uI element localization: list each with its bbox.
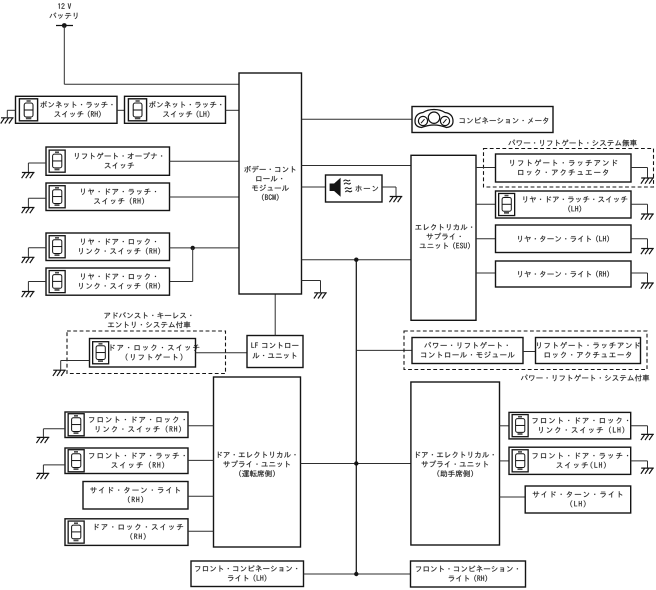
- dashed enclosure: power liftgate system: [404, 331, 647, 370]
- switch icon (フロント・ドア・ラッチ・スイッチ (LH)): [512, 450, 528, 472]
- wire: liftgate opener switch to ground: [28, 163, 46, 172]
- ground (front door lock link switch LH): [641, 434, 654, 440]
- wire: liftgate door lock switch to LF control unit: [196, 352, 248, 354]
- wire: PLG control module to liftgate latch and lock actuator: [523, 351, 536, 353]
- switch icon (リフトゲート・オープナ・スイッチ): [49, 150, 65, 172]
- switch icon (リヤ・ドア・ロック・リンク・スイッチ (RH) upper): [49, 236, 65, 258]
- switch icon (フロント・ドア・ラッチ・スイッチ (RH)): [68, 450, 84, 472]
- wire: door lock switch RH to door ESU driver: [188, 530, 214, 532]
- switch icon (リヤ・ドア・ラッチ・スイッチ (RH)): [49, 186, 65, 208]
- wire: BCM to ESU (lower): [302, 259, 412, 261]
- box: フロント・ドア・ラッチ・スイッチ (RH): [65, 448, 188, 474]
- ground (rear door lock link switch upper): [22, 257, 35, 263]
- switch icon (フロント・ドア・ロック・リンク・スイッチ (RH)): [68, 414, 84, 436]
- ground (front door latch switch RH): [36, 473, 49, 479]
- wire: BCM to ESU (upper): [302, 165, 412, 167]
- box: ボンネット・ラッチ・スイッチ (LH): [125, 96, 226, 123]
- wire: rear door latch switch LH to ground: [631, 204, 648, 213]
- wire: side turn light RH to door ESU driver: [188, 495, 214, 497]
- switch icon (ボンネット・ラッチ・スイッチ (LH)): [128, 99, 146, 121]
- wire: rear door lock link lower to ground: [28, 282, 46, 292]
- ground (rear door lock link switch lower): [22, 292, 35, 298]
- wire: liftgate latch and lock actuator to ground: [631, 168, 648, 178]
- box: LF コントロール・ユニット: [247, 336, 303, 368]
- wire: BCM to horn: [302, 186, 326, 188]
- wire: rear door lock link upper to BCM: [170, 247, 240, 249]
- dashed enclosure: advanced keyless entry system: [67, 331, 226, 374]
- box: リヤ・ドア・ラッチ・スイッチ (LH): [496, 191, 632, 218]
- box: ドア・エレクトリカル・サプライ・ユニット (助手席側): [411, 382, 500, 545]
- wire: ESU to rear turn light LH: [476, 238, 496, 240]
- wire: liftgate door lock switch to ground: [61, 361, 90, 370]
- wire: front door lock link RH to ground: [43, 429, 65, 437]
- box: フロント・コンビネーション・ライト (RH): [411, 561, 526, 587]
- box: ホーン: [326, 175, 383, 202]
- wire: ESU to rear turn light RH: [476, 272, 496, 274]
- junction: BCM/ESU lower wire to vertical bus: [354, 258, 358, 262]
- ground (front door lock link switch RH): [36, 437, 49, 443]
- ground (rear turn light LH): [641, 249, 654, 255]
- ground (rear door latch switch LH): [641, 214, 654, 220]
- horn speaker icon: [330, 178, 353, 197]
- box: リフトゲート・ラッチアンド ロック・アクチュエータ (無車): [496, 154, 632, 182]
- wire: bonnet latch LH to BCM: [226, 109, 240, 111]
- label: advanced keyless entry system equipped vehicles: [104, 312, 191, 328]
- switch icon (フロント・ドア・ロック・リンク・スイッチ (LH)): [512, 415, 528, 437]
- wire: BCM to ground: [302, 281, 321, 293]
- wire: door ESU driver to door ESU passenger: [301, 463, 411, 465]
- ground (rear turn light RH): [641, 283, 654, 289]
- battery 12V supply symbol: [50, 3, 78, 28]
- label: power liftgate system equipped vehicles: [521, 374, 649, 381]
- box: ドア・ロック・スイッチ (リフトゲート): [90, 339, 200, 368]
- wire: horn to ground: [382, 187, 396, 196]
- switch icon (ボンネット・ラッチ・スイッチ (RH)): [19, 99, 37, 121]
- ground (liftgate opener switch): [22, 173, 35, 179]
- box: リヤ・ドア・ラッチ・スイッチ (RH): [46, 183, 170, 211]
- wire: vertical bus: [355, 260, 357, 574]
- box: エレクトリカル・サプライ・ユニット (ESU): [411, 155, 476, 320]
- wire: door ESU passenger to front door lock link LH: [500, 425, 510, 427]
- switch icon (ドア・ロック・スイッチ (RH)): [68, 521, 84, 543]
- junction: bus to combination lights: [354, 572, 358, 576]
- wire: liftgate opener switch to BCM: [170, 160, 240, 162]
- box: リヤ・ドア・ロック・リンク・スイッチ (RH) upper: [46, 233, 170, 261]
- box: パワー・リフトゲート・コントロール・モジュール: [412, 338, 523, 364]
- wire: LF control unit to BCM: [274, 294, 276, 336]
- wire: front door latch RH to ground: [43, 465, 65, 473]
- junction: rear door lock link switches node: [191, 246, 195, 250]
- ground (liftgate door lock switch): [53, 370, 66, 376]
- wire: front door lock link RH to door ESU driver: [188, 425, 214, 427]
- ground (front door latch switch LH): [641, 468, 654, 474]
- box: フロント・ドア・ロック・リンク・スイッチ (RH): [65, 412, 188, 438]
- ground (BCM): [314, 293, 327, 299]
- wire: ESU to rear door latch switch LH: [476, 203, 496, 205]
- box: サイド・ターン・ライト (RH): [83, 482, 188, 510]
- wire: junction down to lower lock link switch: [170, 248, 193, 282]
- box: リヤ・ドア・ロック・リンク・スイッチ (RH) lower: [46, 268, 170, 295]
- wire: battery down and right to BCM: [64, 26, 239, 85]
- box: リフトゲート・ラッチアンド ロック・アクチュエータ (付車): [536, 338, 641, 364]
- box: フロント・ドア・ロック・リンク・スイッチ (LH): [509, 412, 631, 439]
- junction: door ESU cross wire at bus: [354, 461, 358, 465]
- box: リヤ・ターン・ライト (LH): [496, 225, 632, 253]
- ground (bonnet latch switch RH): [1, 118, 14, 124]
- wire: rear turn light RH to ground: [631, 273, 648, 283]
- switch icon (リヤ・ドア・ラッチ・スイッチ (LH)): [499, 193, 515, 215]
- wire: bonnet latch RH to ground: [7, 110, 15, 117]
- wire: front door latch RH to door ESU driver: [188, 459, 214, 461]
- wire: bonnet latch RH to LH: [117, 109, 125, 111]
- box: コンビネーション・メータ: [412, 107, 553, 133]
- wire: rear turn light LH to ground: [631, 239, 648, 248]
- wire: front door latch LH to ground: [631, 461, 648, 468]
- ground (liftgate latch and lock actuator): [641, 178, 654, 184]
- ground (rear door latch switch RH): [22, 208, 35, 214]
- box: ドア・ロック・スイッチ (RH): [65, 519, 188, 546]
- box: リフトゲート・オープナ・スイッチ: [46, 147, 170, 175]
- switch icon (ドア・ロック・スイッチ (リフトゲート)): [93, 342, 109, 364]
- box: ドア・エレクトリカル・サプライ・ユニット (運転席側): [214, 377, 301, 547]
- wire: bus to power liftgate control module: [356, 349, 412, 351]
- wire: BCM to combination meter: [302, 118, 413, 120]
- box: ボンネット・ラッチ・スイッチ (RH): [16, 96, 118, 123]
- wire: rear door lock link upper to ground: [28, 248, 46, 257]
- wire: rear door latch RH to ground: [28, 198, 46, 207]
- dashed enclosure: liftgate latch and lock actuator (w/o power liftgate): [484, 149, 654, 188]
- wire: door ESU passenger to front door latch LH: [500, 460, 510, 462]
- box: リヤ・ターン・ライト (RH): [496, 261, 632, 287]
- wire: rear door latch RH to BCM: [170, 196, 240, 198]
- box: フロント・コンビネーション・ライト (LH): [191, 561, 304, 587]
- wire: door ESU passenger to side turn light LH: [500, 496, 526, 498]
- ground (horn): [389, 197, 402, 203]
- box: フロント・ドア・ラッチ・スイッチ (LH): [509, 447, 631, 474]
- wire: front combination lights LH-RH: [304, 573, 411, 575]
- box: サイド・ターン・ライト (LH): [525, 486, 631, 513]
- meter cluster icon: [415, 110, 453, 128]
- wire: front door lock link LH to ground: [631, 426, 648, 434]
- wire: ESU to liftgate latch and lock actuator: [476, 167, 496, 169]
- box: ボデー・コントロール・モジュール (BCM): [239, 73, 302, 294]
- switch icon (リヤ・ドア・ロック・リンク・スイッチ (RH) lower): [49, 271, 65, 293]
- label: power liftgate system not-equipped vehicles: [508, 139, 636, 146]
